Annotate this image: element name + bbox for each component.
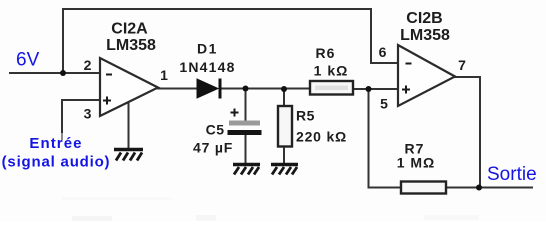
svg-text:D1: D1 <box>197 41 218 57</box>
svg-text:CI2A: CI2A <box>111 21 148 38</box>
svg-text:LM358: LM358 <box>106 37 156 54</box>
svg-text:Sortie: Sortie <box>487 164 537 185</box>
svg-text:1N4148: 1N4148 <box>179 59 235 75</box>
svg-text:3: 3 <box>84 106 92 122</box>
svg-text:LM358: LM358 <box>400 27 450 44</box>
svg-text:C5: C5 <box>206 122 225 138</box>
svg-text:R5: R5 <box>296 108 315 124</box>
svg-text:R6: R6 <box>316 45 336 61</box>
svg-text:Entrée: Entrée <box>29 135 82 152</box>
svg-text:(signal audio): (signal audio) <box>2 154 111 171</box>
svg-text:1: 1 <box>160 67 168 83</box>
svg-text:1 MΩ: 1 MΩ <box>397 155 436 171</box>
svg-text:6: 6 <box>379 44 387 60</box>
svg-text:5: 5 <box>380 96 388 112</box>
svg-text:1 kΩ: 1 kΩ <box>314 63 349 79</box>
svg-text:47 µF: 47 µF <box>193 140 233 156</box>
svg-text:CI2B: CI2B <box>406 10 442 27</box>
svg-text:220 kΩ: 220 kΩ <box>296 129 347 145</box>
svg-text:7: 7 <box>458 57 466 73</box>
svg-text:2: 2 <box>84 57 92 73</box>
svg-text:6V: 6V <box>16 50 40 71</box>
